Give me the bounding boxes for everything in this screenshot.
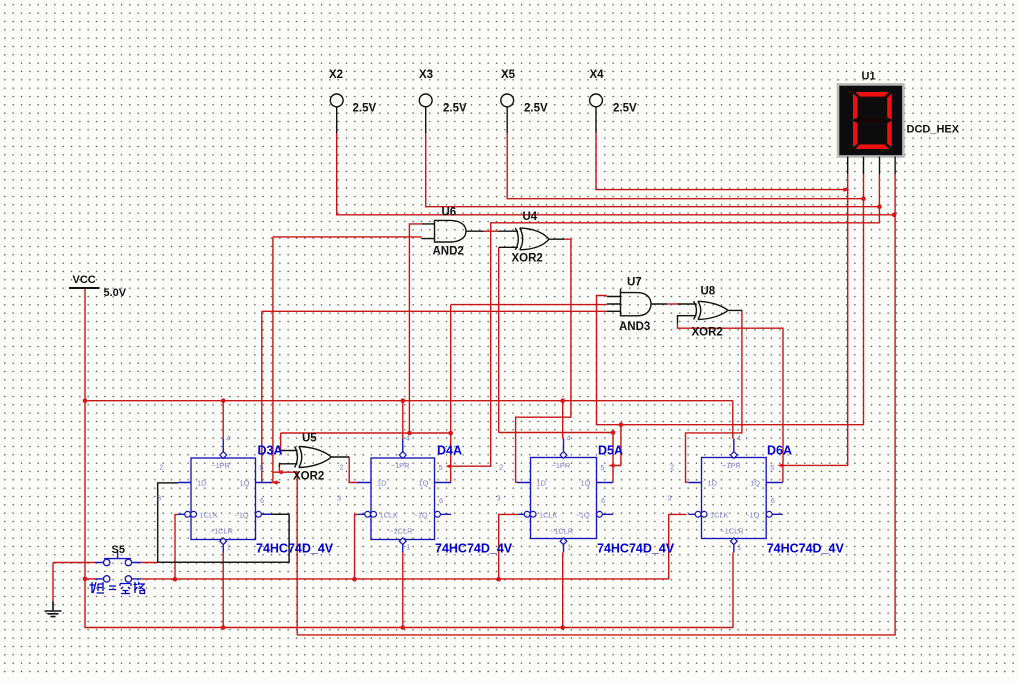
wire D6A PR riser — [732, 401, 734, 439]
svg-text:1: 1 — [737, 543, 741, 552]
svg-text:1CLK: 1CLK — [710, 510, 729, 519]
switch S5 (key = space) — [95, 563, 141, 579]
svg-text:1: 1 — [567, 543, 571, 552]
junction (863.5,198.7) — [861, 196, 866, 201]
svg-text:VCC: VCC — [73, 274, 96, 286]
svg-text:5: 5 — [770, 463, 774, 472]
junction (85,578.9) — [83, 577, 88, 582]
svg-text:74HC74D_4V: 74HC74D_4V — [597, 542, 675, 556]
wire U5 out to D4A D — [349, 457, 358, 483]
indicator lamp X4 — [595, 107, 597, 133]
svg-text:1D: 1D — [708, 479, 717, 488]
wire Q1 up to U6 input B line — [272, 237, 274, 483]
svg-text:XOR2: XOR2 — [512, 253, 543, 265]
svg-text:~1PR: ~1PR — [211, 461, 230, 470]
svg-text:D6A: D6A — [767, 444, 792, 458]
junction (620.9,424.7) — [619, 422, 624, 427]
junction (498.7,579.2) — [496, 577, 501, 582]
wire D3A CLR riser — [222, 553, 224, 628]
svg-text:X4: X4 — [590, 69, 605, 81]
wire riser to D6A Q stub — [782, 465, 784, 482]
wire display pin1 down to D6A Q junction — [783, 174, 848, 465]
svg-text:6: 6 — [601, 496, 605, 505]
junction arrow X4 line at pin1 vertical — [844, 187, 850, 192]
wire D5A Q riser — [612, 433, 614, 483]
wire CLR bus y=627.5 — [85, 579, 733, 628]
svg-text:1D: 1D — [197, 479, 206, 488]
wire D4A CLR riser — [402, 553, 404, 628]
wire VCC rail y=400.7 — [85, 400, 733, 402]
wire U7 input C (y=311.3) — [262, 310, 607, 312]
svg-text:~1Q: ~1Q — [745, 510, 759, 519]
wire D5A Q to U4.B segment y=432.5 — [499, 432, 613, 434]
wire VCC to S5 lower left — [85, 578, 95, 580]
svg-text:4: 4 — [406, 434, 410, 443]
junction (175,579.2) — [173, 577, 178, 582]
wire U8 out to D6A D — [686, 310, 742, 482]
svg-text:U7: U7 — [627, 277, 642, 289]
svg-text:1Q: 1Q — [581, 479, 591, 488]
svg-text:AND2: AND2 — [433, 246, 464, 258]
indicator lamp X3 — [425, 107, 427, 133]
power VCC 5.0V — [69, 287, 100, 289]
svg-text:2.5V: 2.5V — [524, 103, 548, 115]
svg-text:1Q: 1Q — [750, 479, 760, 488]
svg-text:~1CLR: ~1CLR — [550, 527, 573, 536]
junction arrow at D5A Q riser — [609, 463, 615, 468]
wire U6 input B (y=236.9) — [273, 236, 422, 238]
wire D4A CLK riser — [355, 514, 358, 579]
svg-text:74HC74D_4V: 74HC74D_4V — [256, 542, 334, 556]
svg-text:~1Q: ~1Q — [414, 510, 428, 519]
svg-text:X2: X2 — [329, 69, 343, 81]
wire D3A feedback ~Q to D (black net) — [158, 483, 289, 562]
svg-text:D3A: D3A — [258, 444, 283, 458]
svg-text:XOR2: XOR2 — [692, 327, 723, 339]
wire S5 upper right to D3A feedback — [141, 562, 158, 564]
wire Q2 segment y=433 — [281, 432, 451, 434]
gate U4 XOR2 — [498, 228, 565, 250]
wire D4A Q riser up to U7.B line — [450, 305, 452, 483]
junction (562.7,400.7) — [560, 398, 565, 403]
svg-text:~1CLR: ~1CLR — [210, 527, 233, 536]
svg-text:D5A: D5A — [598, 444, 623, 458]
junction (894.1,214.8) — [892, 213, 897, 218]
svg-text:U5: U5 — [302, 433, 317, 445]
svg-text:2.5V: 2.5V — [353, 103, 377, 115]
wire Q1 riser x=297.2 — [273, 472, 297, 635]
wire display pin2 down, left along y=424.7, up to U7 input A — [597, 174, 864, 425]
svg-text:XOR2: XOR2 — [293, 471, 324, 483]
junction (613,432.5) — [611, 430, 616, 435]
svg-text:1D: 1D — [537, 479, 546, 488]
wire D3A PR riser — [222, 401, 224, 439]
svg-text:2: 2 — [499, 463, 503, 472]
svg-text:1: 1 — [227, 543, 231, 552]
svg-text:U6: U6 — [442, 207, 457, 219]
junction (879.4,206.7) — [877, 204, 882, 209]
svg-text:74HC74D_4V: 74HC74D_4V — [767, 542, 845, 556]
junction arrow at Q1 cluster — [277, 470, 283, 475]
wire D3A CLK riser — [175, 514, 178, 579]
indicator lamp X2 — [336, 107, 338, 133]
svg-text:3: 3 — [668, 494, 672, 503]
svg-text:1CLK: 1CLK — [380, 510, 399, 519]
svg-text:5: 5 — [439, 463, 443, 472]
gate U6 AND2 — [422, 220, 484, 242]
svg-text:6: 6 — [260, 496, 264, 505]
svg-text:1D: 1D — [377, 479, 386, 488]
wire display pin4 down x=895.1 and bottom bus y=634.9 — [297, 174, 895, 635]
svg-text:~1PR: ~1PR — [552, 461, 571, 470]
svg-text:~1CLR: ~1CLR — [720, 527, 743, 536]
svg-text:~1Q: ~1Q — [235, 510, 249, 519]
wire U4 out to D5A D — [516, 239, 571, 482]
wire Q1 up to U7 input C line — [261, 311, 263, 482]
junction (402.8,627.5) — [401, 625, 406, 630]
wire net X4 to display pin1 (y=189.6) — [596, 133, 847, 190]
svg-text:S5: S5 — [112, 544, 125, 556]
svg-text:3: 3 — [497, 494, 501, 503]
wire net X5 to display pin2 (y=198.7) — [507, 133, 863, 199]
junction arrow at D4A Q riser — [446, 464, 452, 469]
flip-flop D3A 74HC74D_4V — [178, 439, 272, 553]
svg-text:X3: X3 — [419, 69, 433, 81]
wire U6 input A riser — [409, 224, 421, 433]
wire display pin3 down, left y=222.8, down x=490.7 to D4A Q — [451, 174, 880, 466]
svg-text:4: 4 — [737, 434, 741, 443]
svg-text:2.5V: 2.5V — [443, 103, 467, 115]
svg-text:6: 6 — [439, 496, 443, 505]
display U1 DCD_HEX seven-segment — [838, 84, 903, 156]
wire D5A PR riser — [562, 401, 564, 439]
svg-text:5: 5 — [260, 463, 264, 472]
junction (223.2,400.7) — [221, 398, 226, 403]
svg-text:2: 2 — [340, 463, 344, 472]
flip-flop D5A 74HC74D_4V — [517, 439, 613, 553]
junction arrow at D6A Q riser — [778, 463, 784, 468]
svg-text:~1PR: ~1PR — [722, 461, 741, 470]
svg-text:U8: U8 — [701, 286, 716, 298]
svg-text:2.5V: 2.5V — [613, 103, 637, 115]
svg-text:X5: X5 — [501, 69, 516, 81]
junction (409.4,433) — [407, 431, 412, 436]
wire D5A CLK riser — [499, 514, 518, 579]
wire U5 input B drop — [278, 467, 280, 473]
svg-text:6: 6 — [771, 496, 775, 505]
wire D4A PR riser — [402, 401, 404, 439]
svg-text:3: 3 — [337, 494, 341, 503]
wire Q1 stub tail — [269, 482, 280, 484]
wire riser up to U4 input B — [498, 247, 500, 432]
svg-text:2: 2 — [160, 463, 164, 472]
svg-text:U1: U1 — [862, 71, 876, 83]
svg-text:1: 1 — [406, 543, 410, 552]
wire S5 upper left to ground — [53, 562, 95, 564]
flip-flop D4A 74HC74D_4V — [358, 439, 451, 553]
wire ground drop — [52, 563, 54, 602]
svg-text:1CLK: 1CLK — [539, 510, 558, 519]
wire net X3 to display pin3 (y=206.7) — [426, 133, 880, 207]
svg-text:DCD_HEX: DCD_HEX — [907, 124, 960, 136]
wire U7 out to U8 in A — [667, 303, 678, 305]
wire VCC column x=85 — [84, 289, 86, 579]
svg-text:1Q: 1Q — [419, 479, 429, 488]
flip-flop D6A 74HC74D_4V — [688, 439, 782, 553]
svg-text:~1Q: ~1Q — [576, 510, 590, 519]
svg-text:U4: U4 — [523, 211, 538, 223]
wire Q2 to U7 input B (y=304.6) — [451, 304, 607, 306]
svg-text:~1PR: ~1PR — [391, 461, 410, 470]
svg-text:2: 2 — [670, 463, 674, 472]
svg-text:5: 5 — [601, 463, 605, 472]
wire D5A CLR riser — [562, 553, 564, 628]
junction (85,400.7) — [83, 398, 88, 403]
wire D6A CLK riser — [669, 514, 687, 579]
svg-text:3: 3 — [157, 494, 161, 503]
junction (354.5,579.2) — [352, 577, 357, 582]
junction (402.8,400.7) — [401, 398, 406, 403]
gate U5 XOR2 — [279, 447, 349, 468]
wire branch down to D5A Q — [613, 425, 621, 466]
wire net X2 to display pin4 (y=214.8) — [337, 133, 894, 215]
wire D6A Q up to U8 input B — [678, 324, 784, 466]
indicator lamp X5 — [506, 107, 508, 133]
junction (450.7,433) — [448, 431, 453, 436]
wire D6A CLR riser — [732, 553, 734, 628]
label key = space (Chinese) — [90, 582, 146, 594]
wire CLK bus y=578.9 — [141, 578, 669, 580]
gate U7 AND3 — [607, 289, 667, 317]
junction (562.7,627.5) — [560, 625, 565, 630]
ground — [45, 602, 62, 617]
svg-text:4: 4 — [567, 434, 571, 443]
junction arrow at D3A Q stub — [272, 480, 278, 485]
svg-text:1CLK: 1CLK — [200, 510, 219, 519]
svg-text:1Q: 1Q — [240, 479, 250, 488]
svg-text:~1CLR: ~1CLR — [389, 527, 412, 536]
svg-text:5.0V: 5.0V — [104, 287, 127, 299]
svg-text:AND3: AND3 — [619, 321, 650, 333]
svg-text:4: 4 — [226, 434, 230, 443]
junction (223.2,627.5) — [221, 625, 226, 630]
svg-text:D4A: D4A — [437, 444, 462, 458]
gate U8 XOR2 — [678, 301, 743, 323]
wire down to U5 input A — [280, 433, 282, 450]
svg-text:74HC74D_4V: 74HC74D_4V — [435, 542, 513, 556]
wire U6 out to U4 in A — [484, 230, 498, 232]
